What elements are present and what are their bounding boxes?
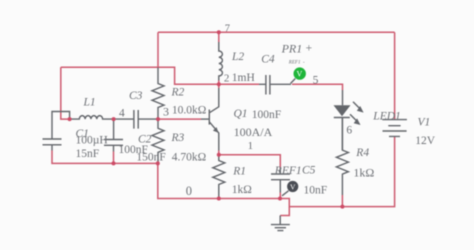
svg-text:L1: L1 <box>83 97 96 109</box>
wire right drop to V1 plus <box>394 32 396 119</box>
svg-text:7: 7 <box>225 23 230 34</box>
wire emitter stub <box>218 151 220 155</box>
svg-text:5: 5 <box>313 75 319 87</box>
ground <box>271 216 290 231</box>
capacitor C5 <box>271 168 290 193</box>
svg-text:R3: R3 <box>171 132 185 144</box>
svg-text:0: 0 <box>186 184 192 198</box>
svg-text:V1: V1 <box>418 116 431 128</box>
svg-text:V: V <box>290 182 296 191</box>
battery V1 <box>382 120 407 137</box>
wire node3 to base <box>158 118 201 120</box>
node R4 bottom junction <box>340 205 344 209</box>
wire ground branch <box>280 207 289 216</box>
svg-text:10nF: 10nF <box>304 184 328 196</box>
svg-text:R4: R4 <box>355 147 369 159</box>
capacitor C1 <box>43 112 70 151</box>
svg-text:3: 3 <box>163 104 169 118</box>
svg-text:REF1 -: REF1 - <box>288 60 305 65</box>
svg-text:12V: 12V <box>415 135 436 147</box>
svg-text:10.0kΩ: 10.0kΩ <box>172 104 206 116</box>
svg-text:150nF: 150nF <box>136 151 165 163</box>
wire R4 bottom stub <box>341 195 343 207</box>
svg-text:100A/A: 100A/A <box>234 125 273 139</box>
wire C5 bottom stub <box>279 193 281 199</box>
resistor R3 <box>152 119 164 163</box>
svg-text:C4: C4 <box>261 53 275 65</box>
probe PR1 <box>291 67 306 83</box>
wire top rail net 7 <box>158 31 395 33</box>
capacitor C4 <box>259 75 291 95</box>
svg-text:REF1: REF1 <box>274 165 302 177</box>
svg-text:1kΩ: 1kΩ <box>353 166 374 180</box>
node 4 <box>112 117 116 121</box>
svg-text:C3: C3 <box>129 90 143 102</box>
wire collector stub <box>218 84 220 88</box>
resistor R2 <box>152 68 164 120</box>
svg-text:Q1: Q1 <box>234 108 248 120</box>
svg-text:2: 2 <box>224 72 230 84</box>
resistor R1 <box>213 155 225 199</box>
node C1 top junction <box>68 117 72 121</box>
wire node1 emitter to C5 <box>219 155 280 168</box>
svg-text:R2: R2 <box>171 87 185 99</box>
svg-text:LED1: LED1 <box>372 110 400 122</box>
inductor L2 <box>219 42 223 81</box>
wire node7 stem <box>218 32 220 42</box>
wire left drop to R2 <box>157 32 159 67</box>
svg-text:1mH: 1mH <box>232 72 255 84</box>
svg-text:1kΩ: 1kΩ <box>232 184 252 196</box>
svg-text:C5: C5 <box>302 165 316 177</box>
svg-text:PR1: PR1 <box>281 41 303 55</box>
node C2 bottom junction <box>112 161 116 165</box>
svg-text:+: + <box>306 43 313 55</box>
wire C2 bottom stub <box>113 152 115 164</box>
svg-text:4.70kΩ: 4.70kΩ <box>172 151 206 163</box>
svg-text:L2: L2 <box>231 51 244 63</box>
probe REF1 <box>282 181 298 196</box>
svg-text:100µH: 100µH <box>76 134 108 146</box>
svg-text:6: 6 <box>346 125 352 137</box>
node 3 <box>156 117 160 121</box>
wire net5 from probe to LED <box>292 84 343 90</box>
wire mid rail net 0 left <box>52 151 280 199</box>
node R1 bottom junction <box>217 197 221 201</box>
capacitor C3 <box>114 110 158 129</box>
capacitor C2 <box>104 119 123 151</box>
wire L2 bottom stub <box>218 81 220 85</box>
transistor Q1 <box>201 88 219 151</box>
svg-text:15nF: 15nF <box>76 148 100 160</box>
wire net2 left drop to C1 top <box>61 67 70 119</box>
node R3 bottom junction <box>156 161 160 165</box>
svg-text:1: 1 <box>248 140 254 152</box>
node 1 <box>217 153 221 157</box>
wire node2 to C4 <box>219 83 259 85</box>
svg-text:R1: R1 <box>232 166 246 178</box>
svg-text:4: 4 <box>119 107 125 119</box>
node 7 <box>217 30 221 34</box>
inductor L1 <box>70 116 114 119</box>
node 0 junction <box>278 197 282 201</box>
wire bottom staircase to battery <box>280 137 395 207</box>
svg-text:100nF: 100nF <box>252 109 281 121</box>
node 2 <box>217 82 221 86</box>
svg-text:V: V <box>297 70 303 79</box>
resistor R4 <box>336 118 348 196</box>
LED LED1 <box>334 90 364 150</box>
wire net2 upper loop <box>61 67 219 84</box>
